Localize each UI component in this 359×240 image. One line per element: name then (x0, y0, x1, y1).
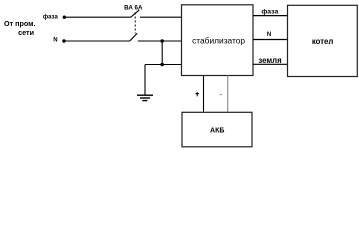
svg-text:N: N (267, 32, 271, 38)
wire N to boiler (253, 39, 288, 41)
wire earth horizontal to stabilizer (145, 64, 182, 66)
wire junction drop to earth line (161, 41, 163, 65)
label От пром. сети (4, 19, 35, 37)
wire фаза to boiler (253, 15, 288, 17)
label - (220, 94, 222, 96)
svg-text:АКБ: АКБ (210, 128, 224, 135)
breaker linkage (dashed) (134, 13, 136, 34)
svg-text:От пром.: От пром. (4, 19, 35, 28)
wire фаза input (64, 16, 130, 18)
wire фаза after breaker (140, 16, 182, 18)
wire N input (64, 40, 130, 42)
svg-text:котел: котел (312, 37, 334, 46)
node фаза terminal (63, 16, 66, 19)
svg-text:фаза: фаза (261, 8, 278, 15)
wire земля to boiler (253, 63, 288, 65)
ground (137, 95, 153, 100)
box стабилизатор (182, 5, 254, 76)
svg-text:стабилизатор: стабилизатор (192, 35, 245, 45)
svg-text:ВА 6А: ВА 6А (124, 4, 143, 11)
node junction on earth line (160, 63, 164, 67)
svg-text:N: N (53, 37, 57, 43)
breaker pole 1 (фаза contact lever) (131, 10, 140, 18)
svg-text:фаза: фаза (43, 14, 59, 21)
wire drop to ground (144, 65, 146, 96)
wire battery - (227, 76, 229, 113)
label + (196, 92, 199, 96)
wire N after breaker (138, 40, 182, 42)
breaker pole 2 (N contact lever) (130, 33, 138, 41)
box котел (288, 5, 358, 76)
svg-text:сети: сети (18, 28, 34, 37)
node N terminal (62, 39, 65, 42)
box АКБ (182, 112, 252, 147)
wire battery + (203, 76, 205, 113)
node junction on N wire (160, 39, 164, 43)
